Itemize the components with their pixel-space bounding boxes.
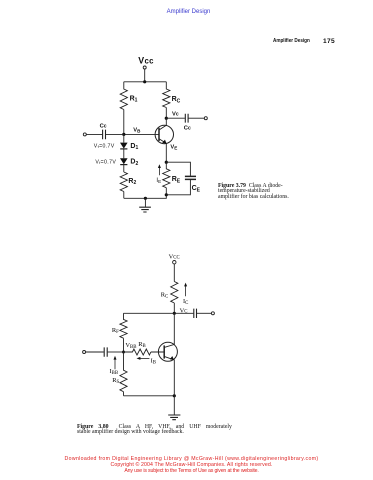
wire VB to D1 — [123, 134, 125, 142]
transistor Q2 collector stroke — [164, 313, 174, 347]
caption figure 3.80 — [77, 425, 232, 436]
resistor RS body — [120, 352, 127, 396]
input terminal (circuit 1) — [83, 133, 86, 136]
svg-text:R2: R2 — [128, 178, 136, 186]
svg-text:VE: VE — [170, 145, 177, 151]
output capacitor plates (circuit 2) — [194, 309, 197, 318]
capacitor CE plates — [185, 176, 196, 179]
node VBB dot — [122, 351, 125, 354]
input terminal (circuit 2) — [83, 351, 86, 354]
wire Vcc to RC (circuit 2) — [173, 264, 175, 282]
junction emitter-ground dot — [173, 394, 176, 397]
Vcc terminal (circuit 1) — [143, 66, 146, 69]
wire input to cap (circuit 2) — [86, 351, 104, 353]
output terminal (circuit 1) — [204, 117, 207, 120]
footer copyright (red) — [5, 457, 373, 474]
wire Vcc to bus — [144, 69, 146, 82]
ground (circuit 1) — [144, 198, 146, 207]
resistor RC (circuit 2) body — [171, 282, 178, 314]
transistor Q2 emitter arrowhead — [170, 356, 174, 360]
node VB dot — [122, 133, 125, 136]
svg-text:VCC: VCC — [169, 253, 180, 260]
wire bottom rail (circuit 1) — [124, 195, 167, 199]
svg-text:Cc: Cc — [100, 124, 107, 130]
svg-text:RS: RS — [112, 377, 119, 385]
svg-text:D1: D1 — [130, 143, 138, 151]
svg-text:IC: IC — [183, 298, 188, 306]
transistor Q1 base bar — [158, 128, 160, 141]
svg-text:RF: RF — [112, 327, 119, 335]
transistor Q1 emitter arrowhead — [162, 140, 166, 144]
resistor RC body — [163, 82, 170, 118]
caption figure 3.79 — [218, 184, 289, 201]
page header right: Amplifier Design 175 — [273, 38, 310, 44]
svg-text:VB: VB — [133, 128, 141, 134]
wire base (circuit 1) — [124, 133, 159, 135]
wire feedback rail — [124, 312, 175, 314]
wire bottom rail (circuit 2) — [124, 395, 175, 397]
running head (top, blue) — [2, 9, 373, 15]
wire cap to output terminal (circuit 2) — [197, 312, 212, 314]
svg-text:Vcc: Vcc — [138, 55, 154, 65]
resistor RB body — [124, 349, 165, 355]
wire emitter down (circuit 1) — [165, 143, 167, 162]
svg-text:Vf=0.7V: Vf=0.7V — [94, 143, 115, 149]
wire D2 to R2 — [123, 165, 125, 172]
junction RE bottom dot — [165, 193, 168, 196]
node Vc (circuit 2) dot — [173, 312, 176, 315]
current arrow IBB — [114, 358, 116, 369]
capacitor Cc input plates — [103, 130, 106, 140]
output terminal (circuit 2) — [211, 312, 214, 315]
transistor Q2 emitter stroke — [164, 356, 174, 395]
svg-text:IBB: IBB — [110, 368, 119, 376]
transistor Q1 circle — [155, 125, 173, 143]
svg-text:IB: IB — [151, 358, 156, 366]
ground (circuit 2) — [173, 396, 175, 415]
svg-text:Cc: Cc — [184, 125, 191, 131]
svg-text:RC: RC — [172, 96, 181, 104]
wire cap to output terminal — [189, 117, 205, 119]
junction Vcc-bus — [143, 80, 146, 83]
svg-text:VBB: VBB — [125, 342, 136, 350]
current arrow IC — [185, 285, 187, 296]
svg-text:IE: IE — [156, 178, 161, 184]
junction ground rail dot — [144, 197, 147, 200]
svg-text:RB: RB — [138, 341, 145, 349]
current arrow IB — [139, 357, 149, 359]
node VE junction dot — [165, 161, 168, 164]
resistor R2 body — [120, 172, 127, 198]
resistor R1 body — [120, 82, 127, 135]
diode D2 — [120, 158, 128, 164]
wire cap to node VB — [106, 133, 124, 135]
svg-text:CE: CE — [192, 185, 201, 193]
wire CE to bottom — [166, 180, 190, 195]
wire VE to CE — [166, 162, 190, 176]
resistor RE body — [163, 162, 170, 195]
node Vc (circuit 1) dot — [165, 117, 168, 120]
wire cap to node VBB — [108, 351, 124, 353]
transistor Q1 collector stroke — [159, 118, 166, 130]
input capacitor plates (circuit 2) — [104, 347, 107, 356]
transistor Q2 base bar — [163, 345, 165, 358]
svg-text:RE: RE — [172, 176, 181, 184]
svg-text:Vc: Vc — [172, 111, 179, 117]
wire top bus (circuit 1) — [124, 81, 167, 83]
resistor RF body — [120, 313, 127, 352]
wire Vc to output cap (circuit 2) — [174, 312, 193, 314]
transistor Q1 emitter stroke — [159, 139, 166, 144]
svg-text:D2: D2 — [130, 159, 138, 167]
wire input to cap — [86, 133, 102, 135]
current arrow IE — [158, 167, 160, 176]
transistor Q2 circle — [158, 342, 177, 361]
svg-text:Vf=0.7V: Vf=0.7V — [95, 159, 116, 165]
svg-text:R1: R1 — [130, 95, 138, 103]
diode D1 — [120, 143, 128, 149]
Vcc terminal (circuit 2) — [173, 261, 176, 264]
wire D1 to D2 — [123, 149, 125, 158]
capacitor Cc output plates — [185, 114, 188, 123]
wire Vc to output cap — [166, 117, 185, 119]
svg-text:RC: RC — [161, 292, 168, 300]
